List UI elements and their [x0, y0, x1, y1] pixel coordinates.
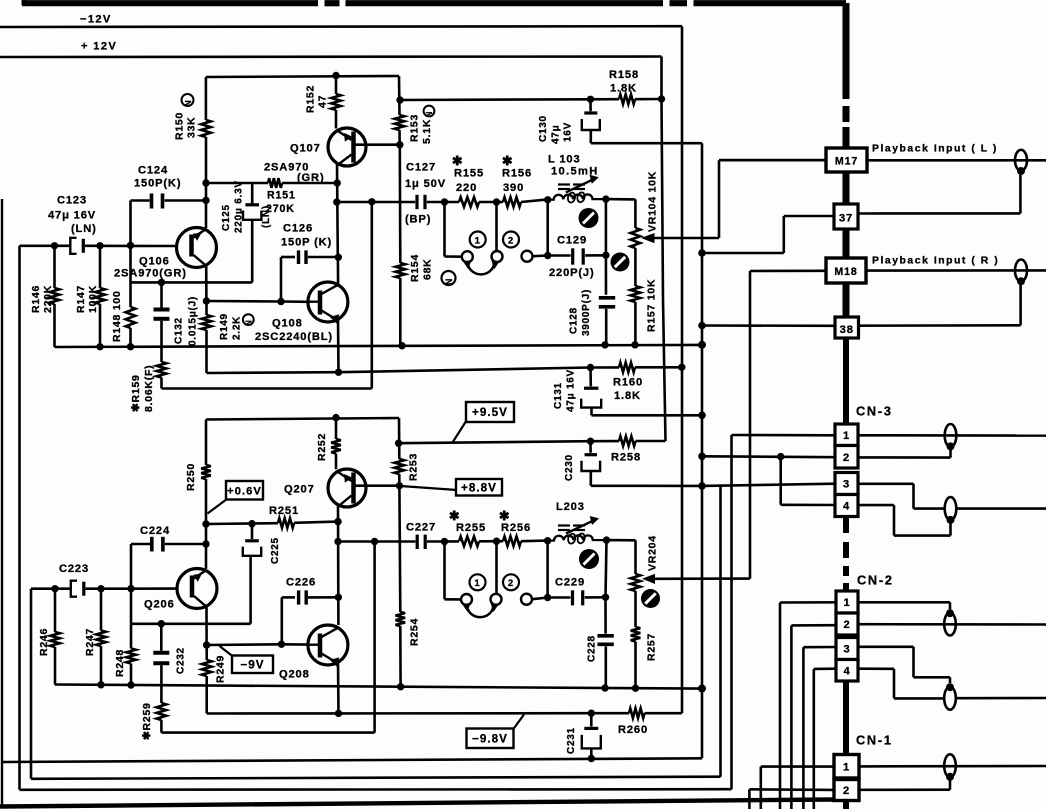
svg-text:R155: R155 [454, 168, 484, 180]
svg-text:R160: R160 [613, 377, 643, 389]
svg-text:100K: 100K [87, 285, 99, 313]
svg-text:R156: R156 [502, 168, 532, 180]
svg-text:C227: C227 [406, 522, 436, 534]
svg-text:R252: R252 [316, 433, 328, 461]
svg-text:220μ 6.3V: 220μ 6.3V [234, 180, 245, 233]
svg-text:C124: C124 [138, 165, 168, 177]
svg-text:0.015μ(J): 0.015μ(J) [188, 296, 199, 346]
svg-text:R256: R256 [501, 522, 531, 534]
svg-text:C225: C225 [270, 537, 281, 564]
svg-text:✱R159: ✱R159 [130, 374, 142, 412]
svg-text:−9V: −9V [240, 658, 264, 671]
svg-text:16V: 16V [563, 122, 574, 142]
svg-text:✱: ✱ [452, 153, 464, 168]
svg-text:C123: C123 [57, 195, 87, 207]
svg-text:1.8K: 1.8K [610, 83, 637, 95]
svg-text:(LN): (LN) [71, 223, 97, 235]
svg-text:C130: C130 [538, 115, 549, 142]
svg-text:N: N [444, 278, 454, 285]
svg-text:2: 2 [843, 619, 850, 631]
svg-text:220K: 220K [42, 285, 54, 313]
svg-text:VR104 10K: VR104 10K [647, 171, 659, 232]
svg-text:+8.8V: +8.8V [461, 481, 497, 494]
svg-text:R249: R249 [215, 655, 227, 683]
svg-text:2: 2 [843, 785, 850, 797]
svg-text:+0.6V: +0.6V [227, 485, 262, 497]
svg-text:R149: R149 [219, 313, 230, 340]
svg-text:C231: C231 [566, 727, 577, 754]
svg-text:5.1K: 5.1K [421, 119, 433, 144]
svg-text:3: 3 [843, 479, 850, 491]
svg-text:✱R259: ✱R259 [141, 702, 153, 740]
svg-text:CN-3: CN-3 [856, 404, 893, 419]
svg-text:2.2K: 2.2K [232, 316, 243, 340]
svg-text:✱: ✱ [499, 508, 511, 523]
svg-text:R260: R260 [618, 724, 648, 736]
svg-text:R258: R258 [611, 452, 641, 464]
svg-text:R151: R151 [267, 190, 296, 202]
svg-text:Q107: Q107 [290, 143, 321, 155]
svg-text:R148 100: R148 100 [111, 290, 123, 342]
svg-text:2SC2240(BL): 2SC2240(BL) [255, 331, 333, 343]
svg-text:R257: R257 [646, 633, 658, 661]
svg-text:M17: M17 [835, 156, 858, 168]
svg-text:R254: R254 [409, 618, 421, 646]
svg-text:1: 1 [474, 578, 480, 589]
svg-text:R153: R153 [409, 114, 421, 142]
svg-text:CN-1: CN-1 [856, 733, 893, 748]
svg-text:C125: C125 [221, 204, 232, 231]
svg-text:150P(K): 150P(K) [134, 178, 181, 190]
svg-text:R158: R158 [609, 69, 639, 81]
svg-text:150P (K): 150P (K) [281, 237, 332, 249]
svg-text:C128: C128 [569, 307, 580, 334]
svg-text:68K: 68K [422, 258, 434, 280]
svg-text:−9.8V: −9.8V [472, 732, 508, 745]
svg-text:1: 1 [843, 597, 850, 609]
svg-text:(BP): (BP) [405, 214, 431, 226]
svg-text:C127: C127 [406, 162, 436, 174]
svg-text:C223: C223 [59, 563, 89, 575]
svg-text:C228: C228 [587, 635, 598, 662]
svg-text:R150: R150 [174, 112, 186, 140]
svg-text:2: 2 [508, 578, 514, 589]
svg-text:R255: R255 [456, 522, 486, 534]
svg-text:37: 37 [839, 213, 853, 225]
svg-text:R251: R251 [269, 505, 299, 517]
svg-text:(GR): (GR) [297, 172, 325, 184]
svg-text:2SA970(GR): 2SA970(GR) [114, 268, 187, 280]
svg-text:38: 38 [840, 324, 854, 336]
svg-text:Q208: Q208 [279, 669, 310, 681]
svg-text:R147: R147 [75, 285, 87, 313]
svg-text:220: 220 [456, 182, 477, 194]
svg-text:C126: C126 [283, 223, 313, 235]
svg-text:Q207: Q207 [284, 484, 315, 496]
svg-text:1: 1 [843, 430, 850, 442]
svg-text:C226: C226 [286, 577, 316, 589]
svg-text:C129: C129 [557, 235, 587, 247]
svg-text:C230: C230 [564, 454, 575, 481]
svg-text:4: 4 [843, 665, 850, 677]
svg-text:390: 390 [503, 182, 524, 194]
svg-text:C224: C224 [140, 525, 170, 537]
svg-text:47: 47 [317, 95, 329, 108]
svg-text:8.06K(F): 8.06K(F) [143, 365, 155, 412]
svg-text:CN-2: CN-2 [857, 573, 894, 588]
svg-text:47μ: 47μ [551, 125, 562, 144]
svg-text:Playback Input ( R ): Playback Input ( R ) [872, 256, 999, 267]
svg-text:Q206: Q206 [144, 599, 175, 611]
svg-text:R248: R248 [114, 649, 126, 677]
svg-text:+9.5V: +9.5V [472, 406, 508, 419]
svg-text:−12V: −12V [80, 14, 112, 26]
svg-text:R253: R253 [408, 453, 420, 481]
svg-text:L203: L203 [556, 501, 585, 513]
svg-text:R152: R152 [305, 85, 317, 113]
svg-text:N: N [183, 100, 193, 107]
svg-text:1μ 50V: 1μ 50V [405, 178, 446, 190]
svg-text:220P(J): 220P(J) [549, 267, 595, 279]
svg-text:4: 4 [843, 501, 850, 513]
svg-text:Q106: Q106 [139, 256, 170, 268]
svg-text:M18: M18 [834, 266, 857, 278]
svg-text:47μ 16V: 47μ 16V [48, 210, 96, 222]
svg-text:C132: C132 [174, 317, 185, 344]
svg-text:VR204: VR204 [647, 535, 659, 571]
svg-text:10.5mH: 10.5mH [551, 166, 599, 178]
svg-text:3900P(J): 3900P(J) [581, 289, 592, 336]
svg-text:C131: C131 [553, 382, 564, 409]
svg-text:N: N [244, 319, 253, 325]
svg-text:N: N [425, 111, 434, 117]
svg-text:2: 2 [843, 452, 850, 464]
svg-text:R250: R250 [185, 463, 197, 491]
svg-text:2: 2 [508, 235, 514, 246]
svg-text:47μ 16V: 47μ 16V [566, 369, 577, 412]
svg-text:C232: C232 [176, 647, 187, 674]
svg-text:33K: 33K [186, 116, 198, 138]
svg-text:R157 10K: R157 10K [646, 279, 658, 332]
svg-text:3: 3 [843, 644, 850, 656]
svg-text:1: 1 [475, 235, 481, 246]
svg-text:(LN): (LN) [261, 205, 272, 228]
svg-text:R247: R247 [84, 628, 96, 656]
svg-text:Q108: Q108 [272, 318, 303, 330]
svg-text:1.8K: 1.8K [614, 390, 641, 402]
svg-text:1: 1 [843, 761, 850, 773]
svg-text:C229: C229 [555, 577, 585, 589]
svg-text:✱: ✱ [449, 508, 461, 523]
svg-text:R146: R146 [30, 285, 42, 313]
svg-text:R246: R246 [38, 628, 50, 656]
svg-text:✱: ✱ [502, 153, 514, 168]
svg-text:L 103: L 103 [548, 154, 581, 166]
svg-text:R154: R154 [409, 254, 421, 282]
svg-text:+ 12V: + 12V [81, 41, 117, 53]
svg-text:Playback Input ( L ): Playback Input ( L ) [872, 144, 998, 155]
